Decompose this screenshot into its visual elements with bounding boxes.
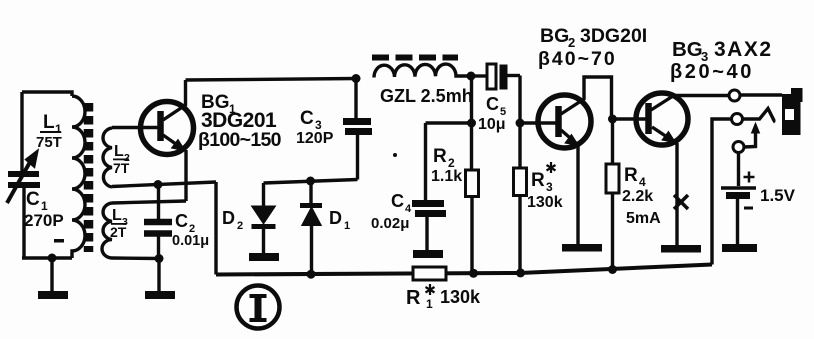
svg-text:3AX2: 3AX2: [714, 38, 773, 61]
battery value label 1.5V: [760, 186, 796, 205]
choke GZL 2.5mh core (dashed): [372, 55, 458, 61]
speck: [393, 153, 397, 157]
capacitor C2 0.01u: [144, 185, 172, 259]
jack terminal 1: [729, 90, 740, 101]
svg-text:L: L: [114, 143, 124, 160]
svg-text:L: L: [43, 112, 55, 133]
svg-text:3: 3: [546, 180, 553, 194]
ground (C4): [413, 250, 443, 258]
svg-text:R: R: [531, 170, 545, 191]
D1 label: [329, 208, 350, 232]
node A (C3/choke junction): [352, 74, 361, 83]
BG1 label 3DG201 b100~150: [198, 92, 282, 151]
C1 value label 270P: [24, 189, 64, 243]
L2 value label 7T: [113, 143, 130, 176]
svg-text:0.01μ: 0.01μ: [172, 233, 209, 249]
svg-text:D: D: [329, 208, 342, 228]
node R2-rail junction: [469, 269, 478, 278]
svg-text:BG: BG: [540, 25, 569, 47]
svg-text:C: C: [175, 211, 188, 231]
node C2/L3 ground junction: [155, 254, 164, 263]
svg-text:C: C: [300, 108, 314, 129]
resistor R1 130k (in bottom rail): [413, 267, 446, 280]
R4 value label 2.2k 5mA: [622, 165, 661, 227]
wire top rail BG1 collector to choke node: [186, 79, 357, 81]
diode D2: [252, 183, 276, 253]
svg-text:C: C: [486, 94, 499, 114]
resistor R3 130k: [514, 123, 527, 273]
resistor R2 1.1k: [466, 76, 479, 274]
jack switch spring contact: [743, 109, 774, 123]
svg-text:BG: BG: [672, 38, 703, 61]
coil L2 (7T base winding): [103, 128, 158, 188]
transistor BG1: [141, 80, 194, 201]
test point x mark (5mA emitter current): [674, 195, 688, 209]
node L2/C2 junction: [154, 180, 163, 189]
svg-text:4: 4: [639, 175, 646, 189]
diode D1: [300, 181, 322, 274]
node BG3 base junction: [608, 115, 617, 124]
L1 value label 75T: [36, 112, 62, 151]
transistor BG3: [636, 93, 688, 245]
wire base lead BG2: [520, 121, 556, 124]
C2 value label 0.01u: [172, 211, 209, 249]
resistor R4 2.2k: [606, 119, 619, 270]
R1 value label 130k with star: [406, 287, 481, 311]
node R3-rail junction: [516, 268, 525, 277]
svg-text:L: L: [112, 207, 122, 224]
ground (BG3 emitter): [661, 245, 701, 253]
wire base lead BG3: [613, 117, 647, 120]
earphone: [782, 88, 803, 135]
svg-text:7T: 7T: [113, 160, 130, 176]
node R2/C4 junction: [467, 119, 476, 128]
wire corner down to bottom rail: [214, 182, 217, 275]
wire L2 bottom to bias rail corner: [112, 182, 216, 187]
GZL value label: [380, 86, 473, 106]
D2 label: [222, 208, 243, 232]
svg-text:D: D: [222, 208, 235, 228]
svg-text:β100~150: β100~150: [198, 129, 282, 151]
svg-text:4: 4: [405, 203, 412, 215]
battery 1.5V: [721, 153, 756, 245]
star mark (R1 select-on-test): [426, 284, 435, 295]
jack plug actuator arrow: [744, 123, 760, 147]
node choke/C5/R2 junction: [467, 72, 476, 81]
svg-text:β20~40: β20~40: [670, 61, 754, 83]
star mark (R3 select-on-test): [547, 162, 556, 173]
node D1-rail junction: [307, 270, 316, 279]
svg-text:GZL 2.5mh: GZL 2.5mh: [380, 86, 473, 106]
coil L3 (2T emitter winding): [102, 201, 186, 259]
circled numeral I (figure label): [237, 286, 280, 329]
wire C5 to BG2 base: [518, 76, 521, 124]
C5 value label 10u: [478, 94, 506, 133]
svg-text:2: 2: [237, 220, 243, 232]
C3 value label 120P: [296, 108, 334, 147]
coil L1 (tank winding, right side of loop): [22, 92, 85, 258]
svg-text:2.2k: 2.2k: [622, 188, 653, 205]
node R4-rail junction: [608, 265, 617, 274]
ground (battery): [722, 244, 757, 252]
ground (D2): [249, 253, 279, 261]
svg-text:R: R: [624, 165, 638, 186]
svg-text:C: C: [391, 191, 404, 211]
svg-text:2T: 2T: [110, 224, 127, 240]
jack terminal 3: [733, 142, 744, 153]
svg-text:1.1k: 1.1k: [431, 168, 462, 185]
svg-text:C: C: [26, 189, 40, 210]
node BG2 base junction: [516, 119, 525, 128]
ground (BG2 emitter): [562, 244, 602, 252]
svg-text:120P: 120P: [296, 130, 334, 147]
wire terminal 2 to bottom rail: [712, 119, 732, 265]
wire BG3 collector to jack: [672, 94, 729, 97]
wire R2 node to C4: [426, 121, 472, 124]
node tank-ground junction: [48, 254, 57, 263]
transistor BG2: [538, 77, 612, 244]
capacitor C4 0.02u: [412, 123, 446, 250]
R3 value label 130k with star: [527, 170, 563, 211]
battery minus sign: [744, 207, 753, 210]
wire bottom bias rail: [216, 265, 712, 275]
svg-text:130k: 130k: [440, 287, 481, 307]
svg-text:1: 1: [426, 297, 433, 311]
ground (C2/L3): [145, 259, 175, 300]
transformer core (dashed bar between L1 and L2/L3): [84, 103, 94, 252]
capacitor C3 120P: [343, 79, 372, 180]
wire terminal 1 to earphone: [740, 93, 782, 96]
node D1 top junction: [306, 177, 315, 186]
svg-text:130k: 130k: [527, 194, 563, 211]
svg-text:1: 1: [344, 220, 350, 232]
svg-text:270P: 270P: [24, 211, 64, 230]
jack terminal 2: [732, 114, 743, 125]
wire tank bottom: [22, 256, 72, 259]
svg-text:R: R: [406, 287, 421, 309]
wire detector line C3 to diodes: [264, 180, 358, 184]
capacitor C5 10u (electrolytic): [471, 64, 520, 90]
ground (tank): [38, 258, 68, 299]
BG2 label 3DG20I b40~70: [538, 25, 647, 70]
C4 value label 0.02u: [371, 191, 412, 232]
L3 value label 2T: [110, 207, 128, 240]
svg-text:5mA: 5mA: [626, 210, 661, 227]
svg-text:75T: 75T: [36, 134, 62, 151]
svg-text:0.02μ: 0.02μ: [371, 215, 409, 232]
svg-text:10μ: 10μ: [478, 116, 506, 133]
capacitor C1 (variable, left side of tank loop): [7, 92, 40, 258]
svg-text:β40~70: β40~70: [538, 48, 617, 70]
inductor GZL 2.5mh: [374, 64, 471, 77]
svg-text:R: R: [433, 146, 447, 167]
svg-text:1.5V: 1.5V: [760, 186, 796, 205]
BG3 label 3AX2 b20~40: [670, 38, 773, 83]
svg-text:3DG20I: 3DG20I: [580, 25, 647, 47]
R2 value label 1.1k: [431, 146, 462, 185]
battery plus sign: [744, 172, 755, 183]
